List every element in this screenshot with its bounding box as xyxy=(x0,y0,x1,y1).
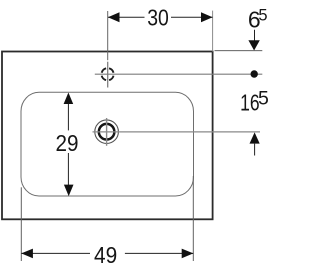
faucet hole centerline vertical (extension of dim 30) xyxy=(107,11,109,60)
dim 6.5 / 16.5 shared end dot xyxy=(251,70,258,77)
faucet hole centerline horizontal xyxy=(95,73,262,75)
dim 29 line xyxy=(67,103,69,130)
dim 6.5 top reference line xyxy=(215,50,263,52)
drain hole centerline vertical xyxy=(106,118,108,146)
svg-text:49: 49 xyxy=(94,242,117,268)
washbasin outer rim (top view) xyxy=(2,52,213,220)
dim 16.5 arrow up xyxy=(250,132,260,143)
svg-text:5: 5 xyxy=(258,88,269,110)
dim 30 extension line right (above rim) xyxy=(212,11,214,52)
dim 49 arrow right xyxy=(182,249,194,259)
washbasin inner bowl outline xyxy=(21,92,194,196)
dim 49 line xyxy=(21,252,90,254)
svg-text:30: 30 xyxy=(147,5,169,31)
dim 30 arrow left xyxy=(108,12,120,22)
dim 6.5 arrow down xyxy=(254,30,256,41)
dim 29 arrow up xyxy=(64,93,74,105)
svg-text:5: 5 xyxy=(258,7,267,25)
dim 30 arrow right xyxy=(201,12,213,22)
drain hole outer circle xyxy=(95,120,119,144)
dim 30 line xyxy=(108,16,145,18)
svg-text:16: 16 xyxy=(240,90,260,116)
drain hole centerline horizontal / dim 16.5 lower line xyxy=(93,131,261,133)
svg-text:29: 29 xyxy=(56,130,79,156)
dim 49 extension line left xyxy=(20,187,22,261)
dim 49 arrow left xyxy=(21,249,33,259)
drain hole inner ring xyxy=(99,124,115,140)
dim 49 extension line right xyxy=(192,176,194,261)
faucet hole (arc ring) xyxy=(102,68,114,80)
dim 29 arrow down xyxy=(64,185,74,197)
